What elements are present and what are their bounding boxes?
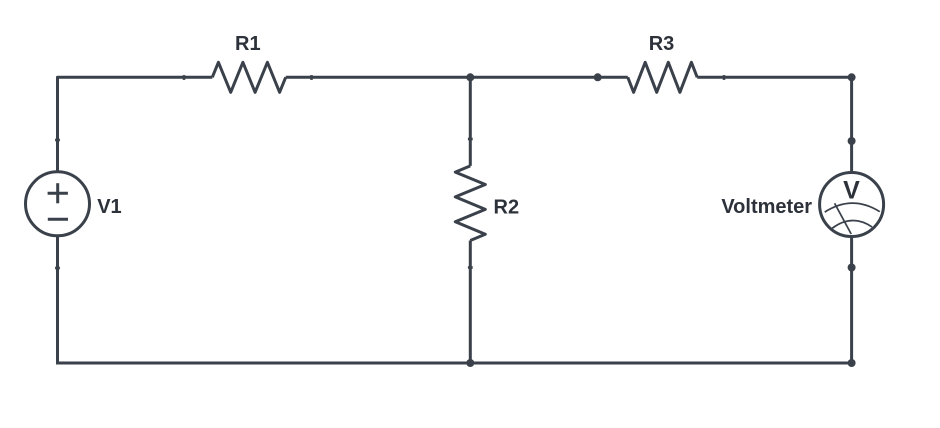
svg-text:Voltmeter: Voltmeter (721, 196, 812, 218)
svg-text:R3: R3 (649, 33, 675, 55)
svg-text:V: V (843, 176, 860, 204)
svg-text:R2: R2 (494, 197, 520, 219)
svg-text:R1: R1 (235, 33, 261, 55)
svg-text:V1: V1 (97, 196, 121, 218)
